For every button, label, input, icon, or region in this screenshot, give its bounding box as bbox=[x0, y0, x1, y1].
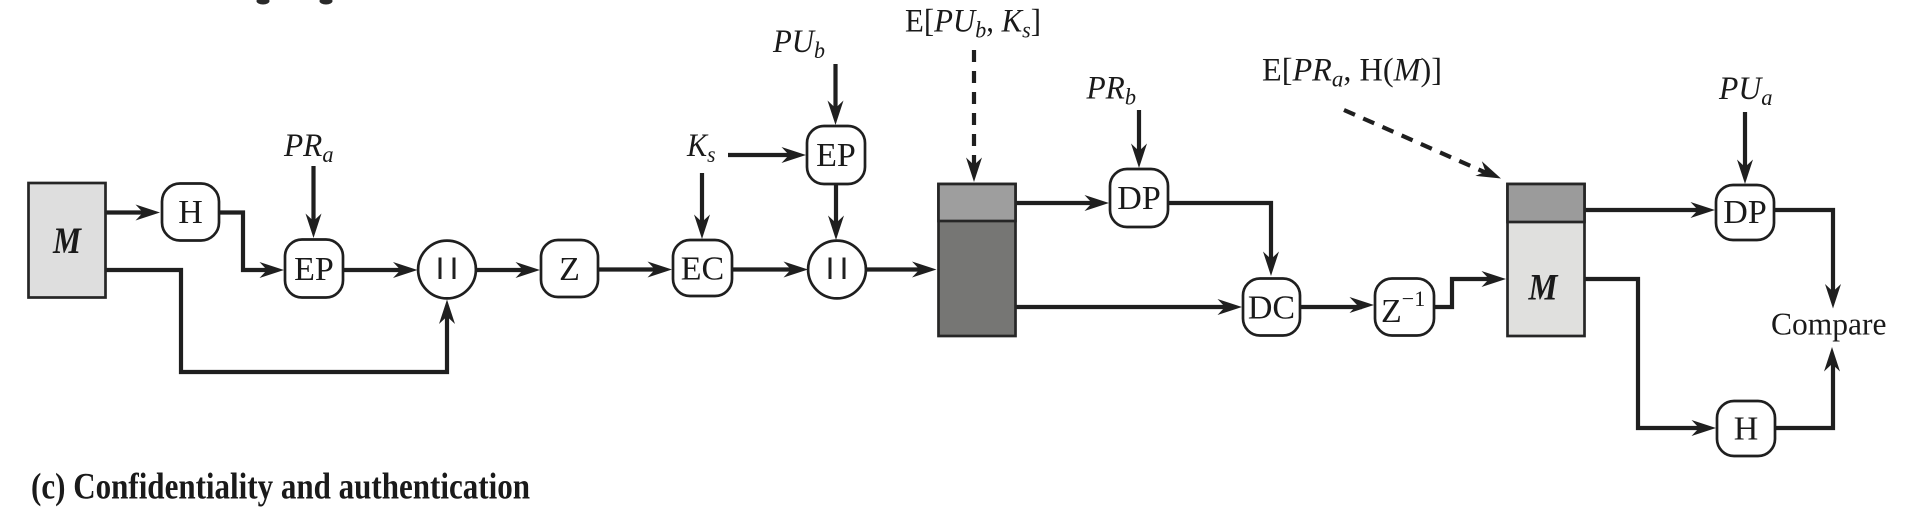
svg-text:PRa: PRa bbox=[283, 128, 333, 168]
node DP1 bbox=[1110, 169, 1168, 227]
node concat1 bbox=[418, 241, 476, 299]
svg-text:PUa: PUa bbox=[1718, 71, 1772, 111]
wire ciphertext block to DP1 bbox=[1016, 201, 1097, 205]
svg-text:EC: EC bbox=[681, 251, 724, 288]
wire M2 to DP2 bbox=[1585, 208, 1703, 212]
svg-text:E[PRa, H(M)]: E[PRa, H(M)] bbox=[1262, 53, 1442, 93]
wire DC to Zinv bbox=[1300, 305, 1362, 309]
svg-text:E[PUb, Ks]: E[PUb, Ks] bbox=[905, 4, 1041, 44]
svg-text:DC: DC bbox=[1248, 290, 1295, 327]
svg-text:PUb: PUb bbox=[772, 24, 825, 64]
svg-text:EP: EP bbox=[816, 137, 856, 174]
wire concat1 to Z bbox=[476, 268, 529, 272]
node H1 bbox=[162, 184, 219, 241]
wire concat2 to ciphertext block bbox=[865, 267, 924, 271]
cropped descender marks at top bbox=[257, 0, 333, 5]
wire EP1 to concat1 bbox=[343, 268, 405, 272]
wire M1 lower branch to concat1 bbox=[106, 270, 447, 372]
svg-text:Z: Z bbox=[559, 251, 580, 288]
arrow PUa to DP2 bbox=[1743, 112, 1747, 172]
block ciphertext header band bbox=[939, 184, 1016, 221]
block M2 header band bbox=[1508, 184, 1585, 222]
node H2 bbox=[1717, 401, 1775, 456]
node DP2 bbox=[1716, 185, 1774, 240]
node Z bbox=[541, 240, 598, 297]
wire M2 lower branch to H2 bbox=[1585, 279, 1704, 428]
node EP1 bbox=[285, 240, 343, 298]
arrowheads bbox=[136, 205, 161, 221]
concat2 bars bbox=[830, 258, 844, 280]
svg-text:H: H bbox=[178, 194, 203, 231]
dashed arrow E[PRa,H(M)] to M2 bbox=[1344, 110, 1490, 175]
block ciphertext body bbox=[939, 184, 1016, 336]
arrow Ks to EC bbox=[700, 173, 704, 227]
arrow PUb to EP2 bbox=[833, 64, 837, 113]
node EP2 bbox=[807, 126, 865, 184]
svg-text:DP: DP bbox=[1723, 194, 1766, 231]
svg-text:M: M bbox=[52, 221, 82, 262]
wire H1 to EP1 bbox=[219, 213, 272, 271]
block M2 recovered body bbox=[1508, 184, 1585, 336]
svg-text:(c) Confidentiality and authen: (c) Confidentiality and authentication bbox=[31, 466, 530, 507]
wire DP1 to DC bbox=[1168, 203, 1271, 265]
arrow PRb to DP1 bbox=[1137, 110, 1141, 156]
wire EP2 to concat2 bbox=[834, 184, 838, 228]
svg-text:PRb: PRb bbox=[1086, 71, 1137, 111]
block M1 plaintext bbox=[29, 183, 106, 298]
wire Zinv to M2 bbox=[1434, 279, 1494, 307]
wire DP2 to Compare bbox=[1774, 210, 1833, 296]
svg-text:M: M bbox=[1528, 268, 1559, 309]
arrow Ks to EP2 bbox=[728, 153, 794, 157]
svg-text:DP: DP bbox=[1117, 180, 1160, 217]
node Zinv bbox=[1375, 279, 1434, 336]
wire M1 to H1 bbox=[106, 210, 148, 214]
wire ciphertext block to DC bbox=[1016, 305, 1230, 309]
concat1 bars bbox=[440, 258, 454, 280]
arrow PRa to EP1 bbox=[311, 166, 315, 226]
svg-text:EP: EP bbox=[294, 251, 334, 288]
node concat2 bbox=[808, 241, 866, 299]
svg-text:Ks: Ks bbox=[686, 128, 715, 168]
svg-text:Compare: Compare bbox=[1771, 307, 1886, 342]
node DC bbox=[1243, 279, 1300, 336]
dashed arrow E[PUb,Ks] to block bbox=[972, 50, 976, 170]
wire EC to concat2 bbox=[732, 267, 796, 271]
wire H2 to Compare bbox=[1775, 359, 1833, 428]
svg-text:H: H bbox=[1734, 411, 1759, 448]
wire Z to EC bbox=[598, 267, 660, 271]
node EC bbox=[673, 240, 732, 296]
